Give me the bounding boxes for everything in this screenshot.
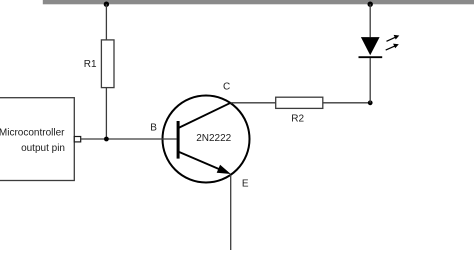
LED light arrow upper [387, 35, 400, 41]
wire LED cathode down to node [369, 58, 371, 103]
transistor Q1 circle [163, 96, 250, 183]
svg-text:E: E [242, 178, 249, 189]
pin terminal of microcontroller [74, 137, 80, 142]
wire rail to LED anode [369, 4, 371, 37]
LED cathode bar [359, 56, 383, 58]
svg-text:C: C [223, 81, 230, 92]
node B junction [104, 137, 109, 142]
wire R2 to LED node [323, 102, 370, 104]
svg-text:B: B [150, 123, 157, 134]
svg-text:R2: R2 [291, 113, 304, 124]
svg-text:Microcontroller: Microcontroller [0, 127, 65, 138]
microcontroller box [0, 98, 74, 181]
wire emitter down [230, 175, 232, 250]
node junction on rail above LED [368, 1, 373, 6]
transistor collector stroke [179, 103, 231, 128]
LED light arrow lower [386, 44, 399, 51]
node junction on rail above R1 [104, 1, 109, 6]
wire R1 bottom to base node [105, 88, 107, 139]
emitter arrowhead [217, 165, 231, 174]
node junction LED cathode net [368, 100, 373, 105]
transistor emitter stroke [179, 152, 226, 172]
svg-text:2N2222: 2N2222 [196, 133, 231, 144]
svg-text:output pin: output pin [21, 143, 65, 154]
power rail (top supply bus) [43, 0, 474, 4]
resistor R2 [276, 97, 323, 108]
LED D1 triangle [361, 37, 380, 55]
wire base from pin to transistor [81, 138, 177, 140]
wire collector to R2 [231, 102, 276, 104]
resistor R1 [101, 40, 114, 88]
transistor base bar [177, 121, 180, 159]
wire rail to R1 top [105, 4, 107, 40]
svg-text:R1: R1 [84, 59, 97, 70]
